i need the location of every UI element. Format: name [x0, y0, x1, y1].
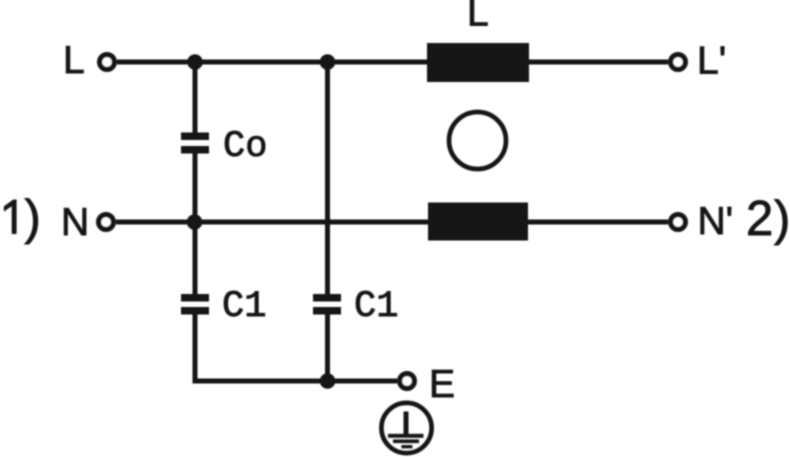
svg-text:N': N' [698, 200, 734, 243]
capacitor C1 (left) plates [181, 294, 209, 302]
wire left branch: L line to Co [193, 62, 198, 133]
wire L terminal to inductor [117, 60, 427, 65]
wire left branch: C1 to bottom wire [193, 315, 198, 384]
svg-text:L: L [467, 0, 489, 35]
capacitor Co plates [181, 133, 209, 141]
terminal E [400, 374, 415, 389]
wire middle branch: C1 to bottom wire [325, 315, 330, 382]
label 1) [4, 200, 17, 235]
wire inductor to N' terminal [528, 220, 668, 225]
protective earth vertical stroke [404, 412, 409, 435]
svg-text:L': L' [697, 40, 726, 83]
protective earth bar 3 (shortest) [401, 445, 412, 448]
bottom earth wire [193, 379, 397, 384]
junction dot on N line at left branch [187, 214, 203, 230]
svg-text:N: N [61, 201, 89, 244]
junction dot on L line at left branch [187, 54, 203, 70]
svg-text:Co: Co [223, 126, 267, 168]
capacitor C1 (middle) plates [313, 294, 341, 302]
svg-text:C1: C1 [354, 286, 398, 328]
svg-text:): ) [774, 192, 790, 246]
wire inductor to L' terminal [529, 60, 668, 65]
svg-text:): ) [25, 191, 41, 245]
protective earth symbol circle [381, 403, 431, 453]
protective earth bar 2 (middle) [393, 439, 419, 443]
wire middle branch: L line down to C1 (crosses N line) [325, 62, 330, 295]
inductor L winding 1 (choke, L line) [427, 43, 529, 82]
terminal N' [671, 215, 686, 230]
svg-text:2: 2 [746, 192, 773, 246]
junction dot on L line at middle branch [320, 54, 336, 70]
wire left branch: Co to N line [193, 154, 198, 223]
terminal L' [671, 55, 686, 70]
wire N terminal to inductor [116, 220, 428, 225]
terminal L [100, 55, 115, 70]
junction dot on earth wire [320, 373, 336, 389]
terminal N [99, 215, 114, 230]
common-mode choke core circle [449, 112, 506, 169]
svg-text:E: E [429, 363, 455, 406]
inductor L winding 2 (choke, N line) [428, 203, 528, 241]
svg-text:C1: C1 [222, 286, 266, 328]
protective earth bar 1 (widest) [388, 434, 424, 438]
svg-text:L: L [63, 39, 85, 82]
wire left branch: N line to C1 [193, 222, 198, 295]
